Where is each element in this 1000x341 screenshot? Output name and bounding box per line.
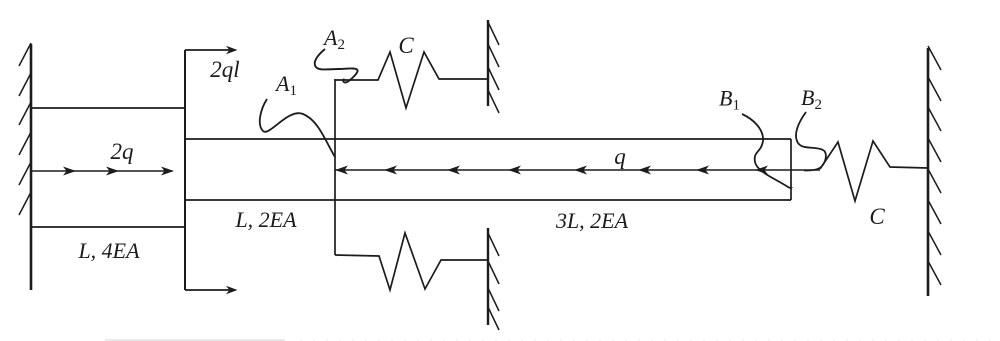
top right wall (487, 20, 489, 106)
leader A1 (260, 99, 335, 157)
bottom spring (335, 233, 488, 290)
left wall hatches (19, 43, 31, 215)
main bar bottom edge (185, 199, 791, 201)
load line q (335, 169, 820, 171)
main bar top edge (185, 138, 791, 140)
svg-text:C: C (398, 33, 414, 58)
right wall hatches (928, 46, 941, 285)
svg-text:q: q (614, 144, 626, 169)
right wall (927, 48, 930, 296)
left wall (30, 44, 33, 290)
bottom right wall (487, 228, 489, 325)
main bar right edge (790, 139, 792, 200)
leader B1 (742, 114, 792, 188)
svg-text:B2: B2 (801, 85, 822, 113)
left bar top edge (31, 107, 185, 109)
bottom right wall hatches (488, 233, 499, 330)
load q arrowheads (335, 166, 768, 175)
svg-text:3L, 2EA: 3L, 2EA (555, 208, 629, 233)
left bar bottom edge (31, 226, 185, 228)
svg-text:2q: 2q (111, 139, 134, 164)
svg-text:C: C (869, 204, 885, 229)
top force arrow 2ql (185, 46, 238, 54)
rigid plate vertical line (184, 50, 186, 290)
svg-text:A2: A2 (322, 25, 345, 53)
right spring C (820, 141, 928, 201)
leader B2 (796, 112, 826, 170)
faint page edge bottom (105, 339, 1000, 341)
svg-text:A1: A1 (274, 71, 297, 99)
svg-text:L, 4EA: L, 4EA (77, 238, 140, 263)
spring connector vertical line (334, 79, 336, 255)
svg-text:L, 2EA: L, 2EA (234, 207, 297, 232)
svg-text:2ql: 2ql (210, 57, 239, 82)
svg-text:B1: B1 (719, 86, 740, 114)
leader A2 (315, 49, 358, 82)
top right wall hatches (488, 22, 499, 113)
top spring C (335, 52, 488, 108)
bottom force arrow (185, 286, 238, 294)
load line 2q (31, 170, 172, 172)
load 2q arrowheads (63, 167, 174, 176)
